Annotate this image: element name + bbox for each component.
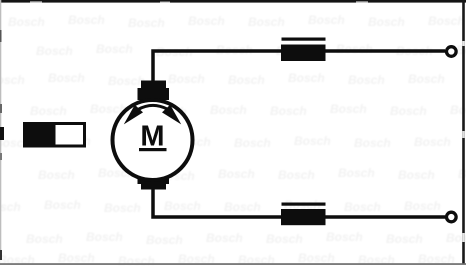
- wire: top run from motor + terminal up and right: [153, 51, 445, 82]
- svg-text:Bosch: Bosch: [8, 15, 45, 29]
- wire: bottom run from motor - terminal down and right: [153, 188, 445, 217]
- svg-text:Bosch: Bosch: [68, 13, 105, 27]
- label M underline: [139, 148, 167, 151]
- terminal (bottom right, open circle): [447, 212, 457, 222]
- terminal block (top of motor): [138, 81, 170, 101]
- terminal block (bottom of motor): [138, 172, 170, 190]
- svg-text:Bosch: Bosch: [248, 15, 285, 29]
- connector (left, half black / half white box): [23, 122, 85, 148]
- svg-text:Bosch: Bosch: [308, 13, 345, 27]
- svg-text:M: M: [140, 121, 164, 153]
- svg-text:Bosch: Bosch: [128, 16, 165, 30]
- frame (decorative): [0, 0, 466, 3]
- motor body circle: [113, 100, 193, 180]
- svg-text:Bosch: Bosch: [368, 15, 405, 29]
- resistor (bottom, suppression choke): [281, 203, 326, 226]
- terminal (top right, open circle): [447, 47, 457, 57]
- watermark tiles: [0, 0, 1, 1]
- motor M: [113, 81, 193, 190]
- svg-text:Bosch: Bosch: [428, 14, 465, 28]
- resistor (top, suppression choke): [281, 38, 326, 62]
- rotation arrow (double-headed arc): [138, 105, 167, 109]
- svg-text:Bosch: Bosch: [188, 14, 225, 28]
